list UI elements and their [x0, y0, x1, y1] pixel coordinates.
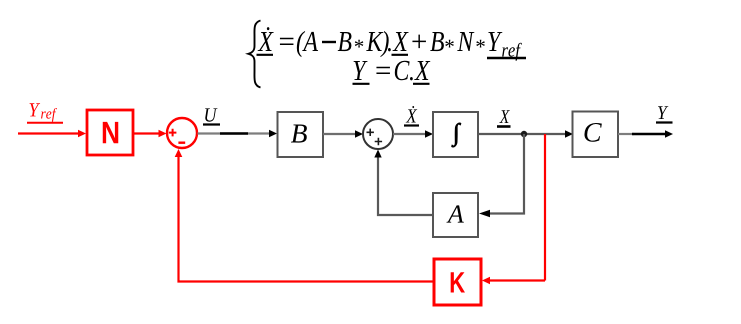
gain block K (red) — [434, 259, 481, 305]
wire: S2 to integrator — [393, 130, 433, 137]
wire: red into K right side — [482, 277, 545, 285]
system brace — [249, 21, 261, 88]
wire: S1 to B (gray with black overlay) — [198, 130, 278, 137]
label Xdot — [406, 106, 417, 123]
underline under Y (eq line 2) — [353, 83, 370, 85]
label X (state) — [499, 110, 510, 123]
node: junction dot on X line — [521, 131, 527, 137]
block A — [433, 193, 478, 237]
wire: N to summing junction S1 — [133, 130, 167, 138]
wire: input arrow into N — [18, 130, 86, 138]
underline under Yref (eq line 1) — [487, 57, 526, 59]
underline under Yref label — [27, 122, 63, 124]
equation line 1: Xdot = (A - B*K).X + B*N*Yref — [258, 27, 274, 51]
wire: A output up into S2 — [374, 150, 433, 216]
summing junction S2 — [363, 119, 393, 149]
underline under X (eq line 2) — [413, 83, 430, 85]
wire: C to output — [618, 130, 673, 138]
gain block N — [87, 110, 133, 155]
integrator block — [433, 112, 478, 157]
block B — [278, 112, 324, 157]
label U — [205, 108, 217, 121]
label Yref (red input reference) — [30, 103, 41, 116]
summing junction S1 (red) — [167, 118, 197, 148]
equation line 2: Y = C.X — [354, 61, 368, 80]
underline under X (eq line 1) — [392, 54, 409, 56]
block C — [573, 112, 619, 158]
wire: K output left and up into S1 — [175, 149, 434, 282]
wire: integrator to C — [478, 130, 573, 137]
wire: red tap down from X line — [544, 134, 546, 281]
wire: B to summing junction S2 — [323, 130, 363, 137]
label Y (output) — [658, 106, 668, 119]
underline under Xdot (eq line 1) — [257, 54, 274, 56]
wire: junction down into A (gray feedback) — [479, 134, 524, 217]
